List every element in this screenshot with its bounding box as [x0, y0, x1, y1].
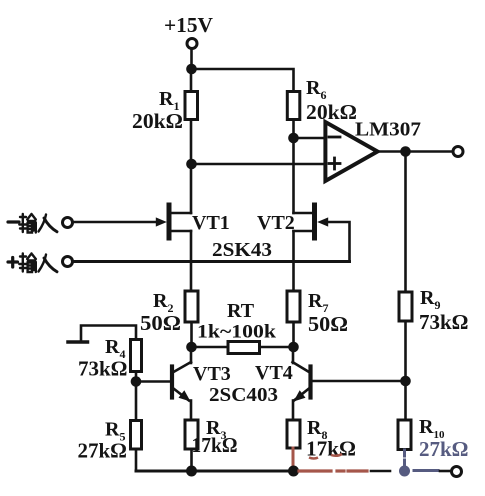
label +input (Chinese): [8, 254, 57, 273]
wire op-amp output: [378, 150, 454, 153]
-input terminal: [63, 218, 73, 228]
svg-text:1k~100k: 1k~100k: [197, 322, 276, 343]
wire bottom rail: [136, 470, 296, 473]
wire to op-amp inverting input: [294, 137, 325, 140]
ground: [68, 326, 136, 343]
node R1 to noninverting input: [186, 159, 197, 170]
svg-text:VT1: VT1: [192, 212, 230, 234]
svg-text:2SC403: 2SC403: [209, 384, 278, 406]
resistor R1: [185, 69, 198, 164]
node top rail junction: [186, 64, 197, 75]
transistor VT1 (JFET): [169, 164, 191, 291]
svg-text:50Ω: 50Ω: [140, 311, 181, 335]
svg-text:2SK43: 2SK43: [212, 239, 272, 261]
node VT3 base junction: [131, 376, 142, 387]
node output junction: [400, 146, 411, 157]
svg-text:20kΩ: 20kΩ: [306, 100, 357, 124]
resistor R10: [398, 381, 411, 450]
resistor R6: [287, 92, 300, 139]
node RT left: [186, 342, 197, 353]
transistor VT3: [136, 347, 191, 420]
transistor VT4: [293, 347, 406, 420]
resistor R9: [399, 152, 412, 382]
wire R10 bottom lead (blue dashed): [403, 450, 406, 469]
svg-text:20kΩ: 20kΩ: [132, 109, 183, 133]
op-amp U1 LM307: [325, 122, 377, 181]
node VT4 base to R9/R10: [400, 376, 411, 387]
+15V supply terminal: [187, 39, 197, 49]
svg-text:50Ω: 50Ω: [308, 312, 348, 336]
wire to op-amp noninverting input: [192, 163, 325, 166]
wire top rail: [192, 69, 294, 92]
resistor R8: [287, 420, 300, 448]
wire blue dash: [414, 469, 438, 472]
resistor R2: [185, 291, 198, 347]
red watermark marks on 17k: [309, 454, 342, 459]
resistor R3: [185, 420, 198, 471]
svg-text:27kΩ: 27kΩ: [78, 439, 128, 463]
wire red dash-dot watermark: [299, 469, 367, 472]
wire VT2 gate loop with arrow: [317, 217, 349, 261]
resistor R5: [131, 382, 142, 472]
svg-text:27kΩ: 27kΩ: [419, 437, 469, 461]
transistor VT2 (JFET): [294, 138, 315, 291]
output terminal: [453, 147, 463, 157]
svg-text:R9: R9: [420, 287, 440, 312]
node R3 bottom: [186, 466, 197, 477]
node R10 bottom (blue): [399, 466, 410, 477]
svg-text:17kΩ: 17kΩ: [192, 433, 238, 457]
wire to bottom output terminal: [440, 470, 451, 473]
svg-text:R6: R6: [306, 77, 326, 102]
svg-text:73kΩ: 73kΩ: [78, 357, 128, 381]
node R8 bottom: [288, 466, 299, 477]
resistor R4: [131, 340, 142, 382]
label -input (Chinese): [8, 214, 57, 233]
wire R8 bottom lead (red): [292, 448, 295, 470]
node R6 to inverting input: [288, 133, 299, 144]
svg-text:17kΩ: 17kΩ: [306, 437, 356, 461]
bottom output terminal: [452, 467, 462, 477]
svg-text:VT2: VT2: [257, 212, 295, 234]
svg-text:+15V: +15V: [164, 13, 213, 37]
wire -input to VT1 gate with arrow: [74, 217, 167, 226]
+input terminal: [63, 257, 73, 267]
resistor R7: [287, 291, 300, 347]
svg-text:RT: RT: [227, 300, 255, 322]
svg-text:73kΩ: 73kΩ: [419, 310, 469, 334]
svg-text:LM307: LM307: [355, 119, 421, 141]
svg-text:VT3: VT3: [193, 363, 231, 385]
wire +input: [74, 260, 350, 263]
resistor RT: [191, 342, 294, 354]
svg-text:VT4: VT4: [255, 362, 293, 384]
wire black dash: [371, 470, 390, 473]
wire +15V stem: [190, 49, 193, 69]
node RT right: [288, 342, 299, 353]
